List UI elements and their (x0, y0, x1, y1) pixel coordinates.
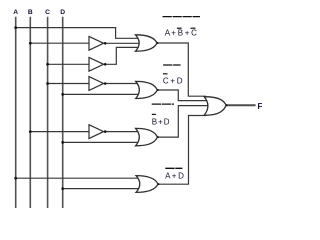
wire A input rail (15, 17, 17, 208)
inverter U2 (C-bar) (89, 57, 106, 71)
wire U1 output to OR1 middle input (106, 42, 138, 44)
wire U2 output to OR1 bottom input (106, 47, 137, 64)
or-gate G4 (A + D) (136, 176, 158, 193)
junction A tap 2 (14, 177, 17, 180)
svg-text:C + D: C + D (163, 76, 183, 85)
wire D to OR3 bottom input (63, 141, 139, 143)
wire G4 output up to final gate (158, 116, 206, 185)
junction C tap 1 (46, 63, 49, 66)
bar over B in label1 (177, 27, 182, 29)
wire D to OR2 bottom input (63, 93, 139, 95)
label (Cbar + D) overall bar (163, 64, 181, 66)
junction A tap 1 (14, 26, 17, 29)
label (A + Bbar + Cbar) overall bar (163, 16, 201, 18)
junction B tap 1 (29, 42, 32, 45)
wire U3 output to OR2 top input (106, 83, 138, 85)
svg-text:A + D: A + D (165, 172, 184, 181)
wire B input rail (29, 17, 31, 208)
junction D tap 3 (61, 187, 64, 190)
wire G3 output up to final gate (157, 106, 208, 138)
svg-text:A + B + C: A + B + C (165, 29, 197, 38)
wire B to inverter U4 (30, 131, 89, 133)
svg-text:B: B (28, 9, 33, 16)
bar over C in label1 (191, 27, 196, 29)
wire B to inverter U1 (30, 42, 89, 44)
inverter U4 (B-bar) (89, 125, 106, 139)
wire C input rail (47, 17, 49, 208)
wire D to OR4 bottom input (63, 188, 139, 190)
wire A to OR1 top input (16, 28, 138, 39)
wire F output (226, 104, 256, 106)
junction C tap 2 (46, 82, 49, 85)
or-gate G1 (A + Bbar + Cbar) (136, 35, 158, 51)
wire G2 output to final gate (157, 90, 208, 101)
wire A to OR4 top input (16, 177, 139, 179)
svg-text:B + D: B + D (152, 117, 170, 126)
wire U4 output to OR3 top input (106, 131, 138, 133)
or-gate G2 (Cbar + D) (136, 81, 158, 98)
wire C to inverter U3 (48, 83, 89, 85)
svg-text:D: D (60, 9, 65, 16)
label (A + D) overall bar (165, 167, 182, 169)
wire C to inverter U2 (48, 63, 89, 65)
or-gate G5 final (F) (204, 97, 226, 116)
svg-text:A: A (13, 9, 18, 16)
svg-text:F: F (258, 102, 263, 111)
junction D tap 2 (61, 141, 64, 144)
junction D tap 1 (61, 93, 64, 96)
bar over C in label2 (163, 73, 168, 75)
or-gate G3 (Bbar + D) (136, 128, 158, 145)
inverter U1 (B-bar) (89, 36, 106, 50)
bar over B in label3 (152, 113, 156, 115)
wire G1 output down to final gate (157, 43, 206, 96)
wire D input rail (62, 17, 64, 208)
junction B tap 2 (29, 130, 32, 133)
inverter U3 (C-bar) (89, 77, 106, 91)
label (Bbar + D) overall bar (152, 103, 174, 105)
svg-text:C: C (45, 9, 50, 16)
